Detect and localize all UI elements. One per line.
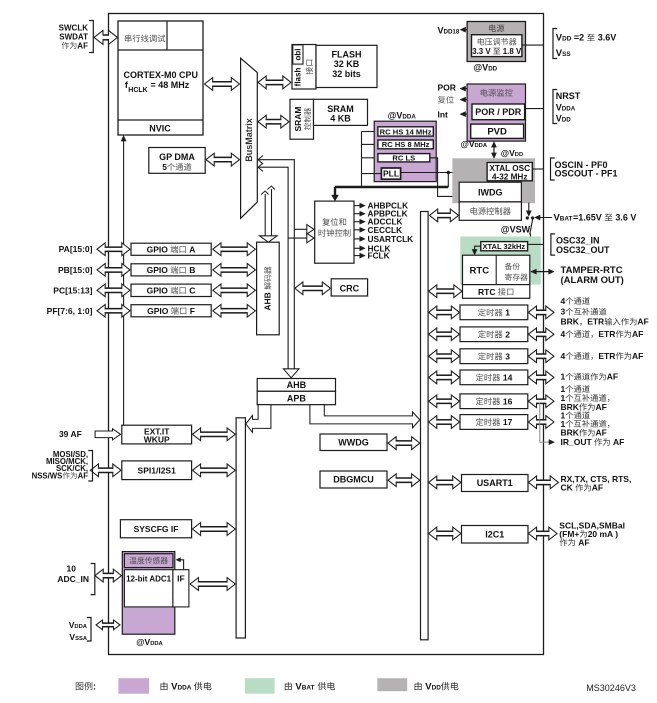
- arrow GPIOB-pins: [97, 264, 130, 277]
- label port C pins: [53, 285, 92, 295]
- svg-text:SPI1/I2S1: SPI1/I2S1: [138, 466, 177, 476]
- svg-text:32 KB: 32 KB: [334, 59, 360, 69]
- bus BusMatrix to AHB decoder: [260, 186, 278, 242]
- svg-text:10: 10: [67, 564, 77, 574]
- block timer TIM1: [460, 305, 528, 320]
- svg-text:FLASH: FLASH: [332, 50, 362, 60]
- svg-text:4: 4: [561, 329, 566, 339]
- arrow TIM1-pins: [528, 306, 554, 319]
- labels TIM2 channels: [561, 329, 644, 339]
- svg-text:SSA: SSA: [75, 636, 88, 642]
- svg-text:AF: AF: [77, 41, 88, 50]
- block supply supervisor POR/PDR PVD: [467, 84, 525, 141]
- wire RC/PLL/XTAL clock nets: [332, 132, 488, 202]
- block SYSCFG: [120, 520, 191, 538]
- svg-text:2: 2: [505, 329, 510, 339]
- svg-text:GPIO: GPIO: [147, 244, 169, 254]
- svg-text:OSCOUT - PF1: OSCOUT - PF1: [555, 168, 618, 178]
- block ADC1 with temperature sensor: [122, 552, 189, 635]
- label VBAT: [554, 213, 637, 224]
- svg-text:HCLK: HCLK: [128, 87, 147, 94]
- svg-text:PA[15:0]: PA[15:0]: [59, 244, 93, 254]
- block flash interface (obl): [292, 45, 316, 90]
- svg-text:AF: AF: [78, 471, 89, 480]
- arrow SPI1-pins: [90, 464, 121, 477]
- svg-text:AF: AF: [578, 537, 589, 547]
- svg-text:(ALARM OUT): (ALARM OUT): [561, 275, 624, 286]
- svg-text:4-32 MHz: 4-32 MHz: [492, 172, 528, 181]
- block SPI1/I2S1: [122, 461, 192, 480]
- labels TIM3 channels: [561, 351, 644, 361]
- arrow GPIOF-decoder: [213, 304, 256, 317]
- svg-text:SWDAT: SWDAT: [59, 32, 88, 41]
- block RTC with backup registers and XTAL32: [460, 237, 541, 285]
- svg-text:PF[7:6, 1:0]: PF[7:6, 1:0]: [47, 306, 93, 316]
- wire VDD18: [460, 27, 467, 32]
- block GPIO port F: [131, 305, 211, 317]
- svg-text:A: A: [189, 244, 195, 254]
- svg-text:DDA: DDA: [150, 641, 163, 647]
- svg-text:BAT: BAT: [560, 216, 573, 223]
- svg-text:PLL: PLL: [383, 169, 399, 179]
- labels I2C1 pins: [559, 521, 625, 548]
- svg-text:12-bit ADC1: 12-bit ADC1: [126, 574, 172, 583]
- svg-text:16: 16: [503, 396, 513, 406]
- arrow 39AF to EXTI: [95, 429, 120, 440]
- svg-text:ETR: ETR: [587, 317, 604, 327]
- svg-text:DD: DD: [515, 152, 523, 158]
- block WWDG: [320, 434, 387, 451]
- svg-text:@V: @V: [473, 63, 488, 73]
- svg-text:flash: flash: [294, 68, 303, 87]
- svg-text:IR_OUT: IR_OUT: [561, 437, 593, 447]
- svg-text:DDA: DDA: [74, 624, 87, 630]
- labels TIM17 channels: [561, 410, 610, 437]
- arrow TIM3-pins: [528, 350, 554, 363]
- arrow EXTI-APBbus: [192, 428, 235, 441]
- arrow SWD to CPU: [94, 30, 118, 44]
- svg-text:RTC: RTC: [470, 265, 490, 276]
- svg-text:USART1: USART1: [477, 478, 513, 488]
- svg-text:@V: @V: [461, 139, 475, 149]
- svg-text:BAT: BAT: [302, 685, 315, 692]
- svg-text:AF: AF: [592, 483, 603, 493]
- svg-text:RTC: RTC: [478, 287, 495, 297]
- arrow RTCif-APBbus: [429, 285, 462, 298]
- port NRST VDDA VDD: [553, 90, 581, 124]
- svg-text::: :: [93, 682, 96, 692]
- label @VDD under regulator: [473, 63, 497, 73]
- arrow GPIOA-pins: [97, 243, 130, 256]
- arrow WWDG-APBbus: [388, 437, 420, 450]
- svg-text:DD: DD: [562, 36, 572, 43]
- svg-text:(FM+: (FM+: [559, 529, 579, 539]
- svg-text:RC HS 8 MHz: RC HS 8 MHz: [382, 140, 430, 149]
- svg-text:3: 3: [505, 351, 510, 361]
- label port F pins: [47, 306, 93, 316]
- block GPIO port A: [131, 243, 211, 255]
- arrow APBbus-USART1: [429, 476, 461, 489]
- svg-text:17: 17: [503, 417, 513, 427]
- arrow APBbus-TIM17: [429, 416, 460, 429]
- svg-text:AF: AF: [596, 428, 607, 438]
- svg-text:POR / PDR: POR / PDR: [475, 107, 522, 117]
- arrow TIM17-pins: [528, 416, 554, 429]
- svg-text:RC LS: RC LS: [392, 153, 415, 162]
- svg-text:ADC_IN: ADC_IN: [57, 574, 89, 584]
- svg-text:C: C: [189, 286, 195, 296]
- svg-text:AF: AF: [607, 372, 618, 382]
- label ADC_IN: [57, 564, 94, 595]
- svg-text:@V: @V: [136, 637, 150, 647]
- block XTAL OSC and IWDG: [453, 159, 535, 203]
- port VDD VSS: [553, 29, 616, 59]
- block RTC interface: [463, 285, 530, 299]
- svg-text:DD: DD: [432, 685, 442, 692]
- arrow SYSCFG-APBbus: [192, 523, 235, 536]
- arrow GPIOC-decoder: [213, 284, 256, 297]
- arrow TIM2-pins: [528, 328, 554, 341]
- block USART1: [462, 475, 529, 492]
- svg-text:MS30246V3: MS30246V3: [586, 683, 636, 693]
- label port B pins: [58, 265, 93, 275]
- svg-text:3.3 V: 3.3 V: [472, 47, 491, 56]
- arrow APBbus-TIM1: [429, 306, 460, 319]
- svg-text:obl: obl: [294, 49, 303, 61]
- labels TIM1 channels: [561, 296, 649, 327]
- svg-text:NSS/WS: NSS/WS: [32, 471, 63, 480]
- svg-text:GPIO: GPIO: [147, 306, 169, 316]
- svg-text:5: 5: [162, 162, 167, 172]
- arrow APBbus-I2C1: [429, 527, 461, 540]
- svg-text:WWDG: WWDG: [338, 438, 369, 448]
- svg-text:PVD: PVD: [487, 127, 507, 138]
- arrow GPIOC-pins: [97, 284, 130, 297]
- arrow APBbus-TIM14: [429, 371, 460, 384]
- svg-text:1: 1: [561, 372, 566, 382]
- arrow BusMatrix-flash: [258, 76, 291, 89]
- port SWCLK/SWDAT labels: [59, 21, 94, 53]
- wire supervisor to osc block @VDDA @VDD: [461, 139, 524, 159]
- label figure id MS30246V3: [586, 683, 636, 693]
- svg-text:4: 4: [561, 296, 566, 306]
- svg-text:4: 4: [561, 351, 566, 361]
- block GPIO port C: [131, 284, 211, 296]
- svg-text:WKUP: WKUP: [144, 435, 170, 445]
- svg-text:AF: AF: [637, 317, 648, 327]
- block EXTI wakeup: [122, 425, 192, 444]
- bus BusMatrix to AHB bridge with RCC branches: [258, 156, 314, 378]
- block I2C1: [462, 526, 529, 544]
- block FLASH 32KB: [316, 45, 377, 87]
- svg-text:@V: @V: [501, 148, 515, 158]
- block RC oscillators and PLL: [374, 121, 436, 181]
- svg-text:NRST: NRST: [556, 91, 581, 101]
- svg-text:OSC32_OUT: OSC32_OUT: [556, 245, 610, 255]
- port VDDA VSSA: [69, 618, 120, 642]
- label port A pins: [59, 244, 93, 254]
- svg-text:IF: IF: [177, 574, 185, 584]
- legend VBAT text: [285, 682, 335, 693]
- label VDD18: [438, 25, 460, 35]
- svg-text:CK: CK: [561, 483, 574, 493]
- svg-text:PB[15:0]: PB[15:0]: [58, 265, 93, 275]
- svg-text:AF: AF: [632, 329, 643, 339]
- bus APB left rail: [236, 418, 245, 638]
- svg-text:=1.65V: =1.65V: [573, 213, 602, 223]
- svg-text:IWDG: IWDG: [478, 187, 503, 197]
- block AHB decoder: [257, 242, 280, 335]
- wire XTAL32 to OSC32 pins: [528, 243, 544, 245]
- arrow CPU-BusMatrix: [205, 78, 240, 91]
- arrow APBbus-TIM3: [429, 350, 460, 363]
- svg-text:ETR: ETR: [598, 351, 615, 361]
- svg-text:3: 3: [561, 307, 566, 317]
- arrow SPI1-APBbus: [192, 464, 235, 477]
- block GPIO port B: [131, 264, 211, 276]
- svg-text:AHB: AHB: [287, 380, 307, 390]
- block DBGMCU: [320, 471, 387, 488]
- svg-text:DDA: DDA: [402, 114, 416, 121]
- block timer TIM3: [460, 349, 528, 364]
- svg-text:RC HS 14 MHz: RC HS 14 MHz: [380, 127, 432, 136]
- svg-text:XTAL 32kHz: XTAL 32kHz: [483, 242, 526, 251]
- labels SPI pins: [32, 450, 93, 481]
- svg-text:APB: APB: [287, 393, 307, 403]
- svg-text:=2: =2: [574, 33, 584, 43]
- arrow GPIOB-decoder: [213, 264, 256, 277]
- legend title: [76, 682, 96, 692]
- block timer TIM14: [460, 370, 528, 385]
- arrow APBbus-TIM2: [429, 328, 460, 341]
- port TAMPER-RTC ALARM OUT: [531, 265, 624, 286]
- svg-text:DDA: DDA: [475, 143, 488, 149]
- wire EXTI interrupt to NVIC: [121, 136, 126, 426]
- svg-text:I2C1: I2C1: [485, 530, 504, 540]
- block timer TIM17: [460, 415, 528, 430]
- arrow GPDMA-BusMatrix: [206, 153, 240, 166]
- svg-text:BRK: BRK: [561, 317, 580, 327]
- svg-text:DDA: DDA: [178, 685, 192, 692]
- svg-text:POR: POR: [438, 83, 456, 93]
- arrow TIM16-pins: [528, 395, 554, 408]
- svg-text:SRAM: SRAM: [293, 106, 303, 131]
- arrow GPIOA-decoder: [213, 243, 256, 256]
- svg-text:SYSCFG IF: SYSCFG IF: [134, 524, 179, 534]
- svg-text:NVIC: NVIC: [149, 124, 171, 134]
- svg-text:SWCLK: SWCLK: [59, 24, 89, 33]
- svg-text:39 AF: 39 AF: [59, 429, 82, 439]
- svg-text:DD: DD: [562, 117, 571, 124]
- legend VDD text: [415, 682, 459, 693]
- svg-text:GPIO: GPIO: [147, 265, 169, 275]
- arrow TIM14-pins: [528, 371, 554, 384]
- svg-text:DD: DD: [488, 66, 497, 73]
- svg-text:DDA: DDA: [562, 106, 576, 113]
- legend VDDA text: [161, 682, 212, 693]
- legend VDD swatch: [377, 678, 407, 691]
- svg-text:DD18: DD18: [444, 28, 460, 35]
- labels USART1 pins: [561, 474, 632, 493]
- arrow APBbus-TIM16: [429, 395, 460, 408]
- arrow BusMatrix-SRAM: [258, 115, 289, 128]
- svg-text:@VSW: @VSW: [501, 225, 531, 235]
- block CRC: [331, 279, 367, 296]
- svg-text:F: F: [190, 306, 195, 316]
- clock outputs AHBPCLK..FCLK: [354, 201, 413, 261]
- block power controller: [459, 202, 521, 220]
- port OSCIN OSCOUT: [551, 158, 618, 180]
- arrow AHB-CRC: [295, 282, 331, 295]
- arrow ADC-pins: [95, 569, 122, 582]
- label 39 AF: [59, 429, 82, 439]
- legend VDDA swatch: [118, 678, 149, 694]
- arrow USART1-pins: [528, 476, 558, 489]
- svg-text:DBGMCU: DBGMCU: [333, 475, 374, 485]
- svg-text:CRC: CRC: [340, 284, 360, 294]
- label @VDDA above RC block: [388, 111, 417, 121]
- block BusMatrix: [241, 58, 258, 218]
- svg-text:FCLK: FCLK: [368, 251, 390, 261]
- label @VDDA under ADC: [136, 637, 163, 647]
- block voltage regulator 3.3V-1.8V: [467, 22, 525, 62]
- arrow GPIOF-pins: [97, 304, 130, 317]
- svg-text:AF: AF: [596, 402, 607, 412]
- port OSC32_IN OSC32_OUT: [551, 234, 610, 255]
- svg-text:14: 14: [503, 373, 513, 383]
- svg-text:GPIO: GPIO: [147, 286, 169, 296]
- svg-text:SRAM: SRAM: [327, 104, 354, 114]
- arrow ADCIF-APBbus: [190, 578, 235, 591]
- svg-text:AF: AF: [632, 351, 643, 361]
- svg-text:ETR: ETR: [598, 329, 615, 339]
- block timer TIM2: [460, 327, 528, 342]
- svg-text:@V: @V: [388, 111, 403, 121]
- block GP DMA 5 channels: [149, 148, 205, 174]
- svg-text:1: 1: [505, 308, 510, 318]
- svg-text:CORTEX-M0 CPU: CORTEX-M0 CPU: [124, 70, 199, 80]
- block timer TIM16: [460, 394, 528, 409]
- node VBAT switch @VSW: [501, 203, 552, 245]
- svg-text:= 48 MHz: = 48 MHz: [151, 80, 190, 90]
- svg-text:1.8 V: 1.8 V: [503, 47, 522, 56]
- arrow I2C1-pins: [528, 527, 557, 540]
- arrow DBGMCU-APBbus: [388, 474, 420, 487]
- arrow APB to peripheral bus left: [246, 405, 271, 433]
- labels TIM16 channels: [561, 384, 610, 412]
- labels TIM14 channels: [561, 372, 619, 382]
- svg-text:B: B: [189, 265, 195, 275]
- svg-text:PC[15:13]: PC[15:13]: [53, 285, 92, 295]
- block SRAM 4KB: [314, 99, 368, 125]
- outer frame: [109, 14, 544, 655]
- legend VBAT swatch: [245, 678, 275, 694]
- block RCC reset and clock control: [315, 201, 354, 263]
- arrow APB to peripheral bus right: [310, 405, 420, 428]
- svg-text:3.6 V: 3.6 V: [615, 213, 636, 223]
- wire IR_OUT: [540, 403, 625, 448]
- svg-text:32 bits: 32 bits: [332, 69, 361, 79]
- wire PORPDR to NRST pin: [525, 108, 544, 110]
- svg-text:20 mA ): 20 mA ): [588, 529, 619, 539]
- svg-text:4 KB: 4 KB: [330, 114, 351, 124]
- svg-text:AHB: AHB: [263, 292, 273, 310]
- wire XTAL to OSC pins: [532, 168, 543, 170]
- svg-text:GP DMA: GP DMA: [159, 152, 195, 162]
- svg-text:AF: AF: [613, 437, 624, 447]
- svg-text:SS: SS: [562, 51, 571, 58]
- block CPU CORTEX-M0 with SWD and NVIC: [118, 21, 203, 135]
- block SRAM controller: [290, 99, 314, 139]
- svg-text:Int: Int: [438, 109, 449, 119]
- bus APB right rail: [421, 212, 429, 640]
- wires POR reset Int: [438, 83, 468, 120]
- svg-text:BusMatrix: BusMatrix: [244, 118, 254, 162]
- svg-text:3.6V: 3.6V: [598, 33, 617, 43]
- arrow powerctrl-APBbus: [430, 209, 459, 222]
- wire regulator to VDD pin: [522, 44, 544, 46]
- block AHB APB bridge: [257, 379, 335, 405]
